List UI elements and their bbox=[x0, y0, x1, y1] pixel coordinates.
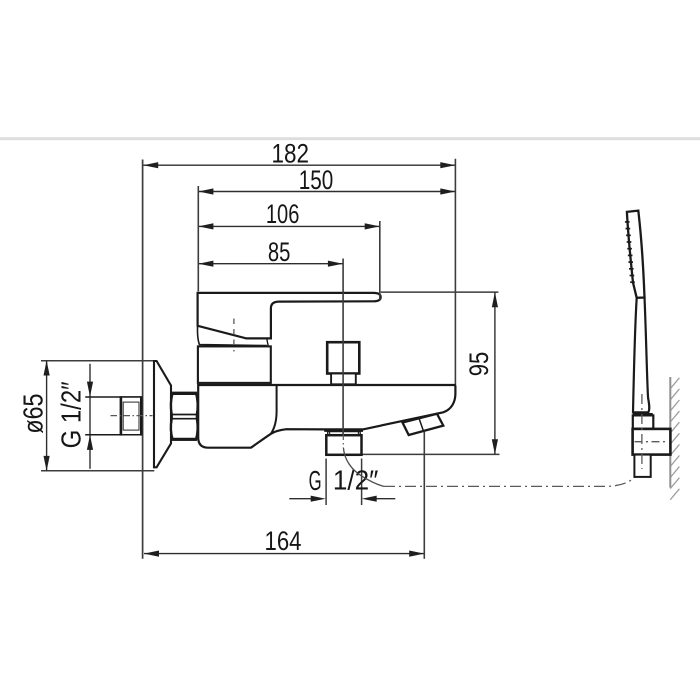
shower vertical centerline bbox=[641, 394, 643, 469]
diverter knob stem bbox=[331, 374, 356, 385]
shower holder block bbox=[633, 429, 671, 455]
top gray rule bbox=[0, 137, 700, 140]
lever handle bbox=[198, 293, 381, 339]
extension line lever top y=292.1 bbox=[381, 291, 499, 293]
wall line bbox=[669, 377, 671, 488]
extension line spout x=424.3 bbox=[423, 432, 425, 559]
svg-text:95: 95 bbox=[464, 352, 494, 377]
shower hose connector bbox=[634, 455, 650, 477]
diverter knob bbox=[327, 342, 359, 373]
extension line outlet left x=326.1 bbox=[325, 459, 327, 506]
svg-text:ø65: ø65 bbox=[17, 394, 48, 434]
wall pipe thread bottom line bbox=[85, 434, 141, 436]
extension line wall face x=142.6 bbox=[142, 160, 144, 559]
svg-text:G 1/2″: G 1/2″ bbox=[56, 381, 87, 448]
cartridge base bbox=[198, 346, 271, 383]
shower cone nut top bbox=[633, 413, 653, 416]
dimension line 106 bbox=[198, 225, 379, 227]
hand shower handle bbox=[633, 298, 649, 413]
svg-text:182: 182 bbox=[272, 138, 310, 168]
shower head nozzle ticks bbox=[625, 221, 630, 223]
spout bbox=[403, 414, 444, 435]
hose centerline dashdot bbox=[384, 467, 641, 487]
outlet nut bbox=[326, 435, 361, 455]
escutcheon cone bbox=[154, 361, 171, 467]
dimension line 182 bbox=[143, 164, 455, 166]
dimension line o65 bbox=[46, 361, 48, 471]
dimension line G1/2 outlet bbox=[289, 498, 311, 500]
dimension line 164 bbox=[144, 553, 424, 555]
wall axis centerline bbox=[111, 415, 153, 417]
svg-text:1/2″: 1/2″ bbox=[333, 465, 379, 496]
svg-text:164: 164 bbox=[265, 526, 302, 556]
holder horizontal centerline bbox=[635, 441, 669, 443]
dimension line 85 bbox=[198, 263, 343, 265]
svg-text:106: 106 bbox=[266, 199, 300, 229]
extension line outlet bottom y=454.4 bbox=[361, 453, 500, 455]
shower cone nut bbox=[633, 415, 654, 428]
hand shower head bbox=[627, 211, 645, 298]
outlet flange bbox=[324, 429, 363, 432]
outlet centerline dashdot bbox=[342, 434, 344, 448]
extension line escutcheon top y=360.7 bbox=[41, 360, 157, 362]
outlet thread bbox=[328, 432, 361, 436]
extension line lever left x=198.3 bbox=[197, 186, 199, 291]
cartridge dome bbox=[197, 326, 266, 346]
wall pipe thread top line bbox=[85, 396, 141, 398]
svg-text:150: 150 bbox=[299, 165, 334, 195]
extension line outlet right x=361.6 bbox=[361, 459, 363, 506]
hose leader curve bbox=[343, 448, 384, 487]
svg-text:G: G bbox=[309, 465, 322, 496]
dimension line 95 bbox=[494, 292, 496, 454]
extension line body right x=455.4 bbox=[454, 159, 456, 385]
wall hatching bbox=[670, 378, 679, 389]
hex nut bbox=[171, 393, 198, 440]
faucet body bbox=[198, 385, 455, 448]
svg-text:85: 85 bbox=[268, 237, 291, 267]
body column interior edge bbox=[271, 386, 277, 434]
lever dashed centerline bbox=[233, 319, 235, 352]
extension line outlet axis x=343.1 bbox=[342, 259, 344, 435]
extension line escutcheon bottom y=470.8 bbox=[41, 470, 154, 472]
dimension line 150 bbox=[198, 191, 455, 193]
dimension line G1/2 wall thread bbox=[89, 364, 91, 469]
extension line lever tip x=379.8 bbox=[379, 221, 381, 300]
wall pipe thread block bbox=[121, 397, 141, 435]
